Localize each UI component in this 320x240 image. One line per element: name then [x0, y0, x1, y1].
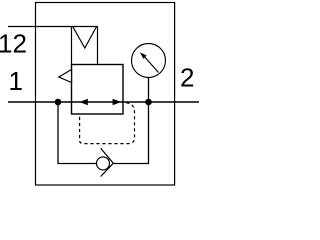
flow arrow left [80, 99, 88, 106]
gauge needle arrowhead [140, 52, 147, 58]
gauge needle [145, 57, 159, 73]
svg-text:2: 2 [180, 63, 194, 93]
regulator body [72, 65, 124, 115]
spring (V) [73, 27, 96, 48]
wire: check valve to output [113, 102, 148, 164]
spring box right edge [97, 27, 99, 65]
pressure gauge [132, 44, 166, 78]
svg-text:12: 12 [0, 28, 27, 58]
gauge stem [148, 78, 150, 100]
dashed pilot sensing line [80, 103, 135, 144]
pilot triangle [59, 70, 72, 83]
flow arrow right [113, 99, 122, 106]
svg-text:1: 1 [9, 66, 23, 96]
check valve seat [101, 148, 114, 176]
wire: pilot port 12 line [8, 26, 98, 28]
wire: drop to check valve [58, 102, 97, 164]
node junction right [145, 99, 152, 106]
node junction left [55, 99, 62, 106]
spring box left edge [71, 27, 73, 65]
check valve ball [97, 157, 110, 170]
enclosure frame [36, 3, 175, 186]
wire: main flow line 1-2 [8, 101, 199, 103]
